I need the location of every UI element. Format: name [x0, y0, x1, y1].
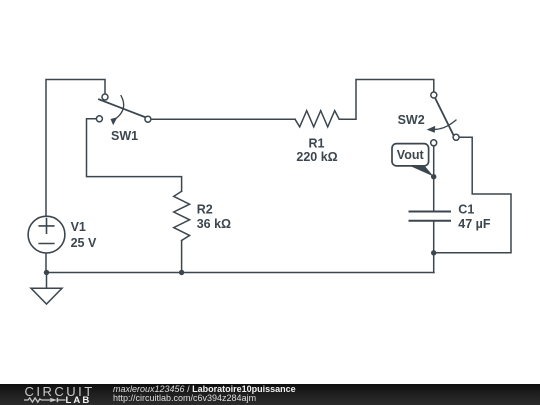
- node Vout flag: [392, 144, 434, 177]
- junction dot below C1: [431, 250, 436, 255]
- junction dot at V1/ground on bottom rail: [44, 270, 49, 275]
- CircuitLab logo word CIRCUIT: [25, 384, 95, 399]
- voltage source V1: [28, 216, 65, 253]
- wire bottom rail: [46, 272, 434, 274]
- wire SW1 left throw to R2 top: [87, 119, 182, 192]
- svg-text:220 kΩ: 220 kΩ: [296, 150, 337, 164]
- wire SW1 right throw to R1 left lead: [151, 118, 295, 120]
- svg-text:V1: V1: [71, 220, 86, 234]
- resistor R1: [295, 111, 339, 127]
- wire R2 bottom to bottom rail: [181, 241, 183, 273]
- ground: [31, 273, 62, 305]
- wire top-left from V1 top to SW1 common: [46, 80, 105, 217]
- svg-text:25 V: 25 V: [71, 236, 97, 250]
- junction dot at Vout tap: [431, 174, 436, 179]
- CircuitLab logo word LAB: [66, 395, 92, 405]
- switch SW2: [427, 92, 460, 146]
- wire SW2 lower throw down to C1 top plate: [433, 146, 435, 211]
- svg-text:36 kΩ: 36 kΩ: [197, 217, 231, 231]
- svg-text:47 µF: 47 µF: [458, 217, 491, 231]
- wire SW2 right throw right, down, right, down to C1 bottom junction: [434, 137, 511, 253]
- wire C1 bottom plate down to bottom rail: [433, 221, 435, 273]
- svg-text:R2: R2: [197, 202, 213, 216]
- resistor R2: [174, 191, 190, 240]
- footer text: [113, 385, 296, 403]
- capacitor C1: [410, 212, 451, 221]
- junction dot at R2 bottom on bottom rail: [179, 270, 184, 275]
- switch SW1: [96, 94, 150, 125]
- svg-text:SW2: SW2: [398, 113, 425, 127]
- footer bar: [0, 384, 540, 405]
- wire R1 right lead up and over to SW2 common: [339, 80, 434, 120]
- wire V1 bottom to ground junction: [45, 253, 47, 273]
- svg-text:Vout: Vout: [397, 148, 425, 162]
- svg-text:R1: R1: [309, 136, 325, 150]
- svg-text:C1: C1: [458, 203, 474, 217]
- svg-text:SW1: SW1: [111, 129, 138, 143]
- logo circuit glyph: resistor zigzag, diode, line: [0, 384, 100, 405]
